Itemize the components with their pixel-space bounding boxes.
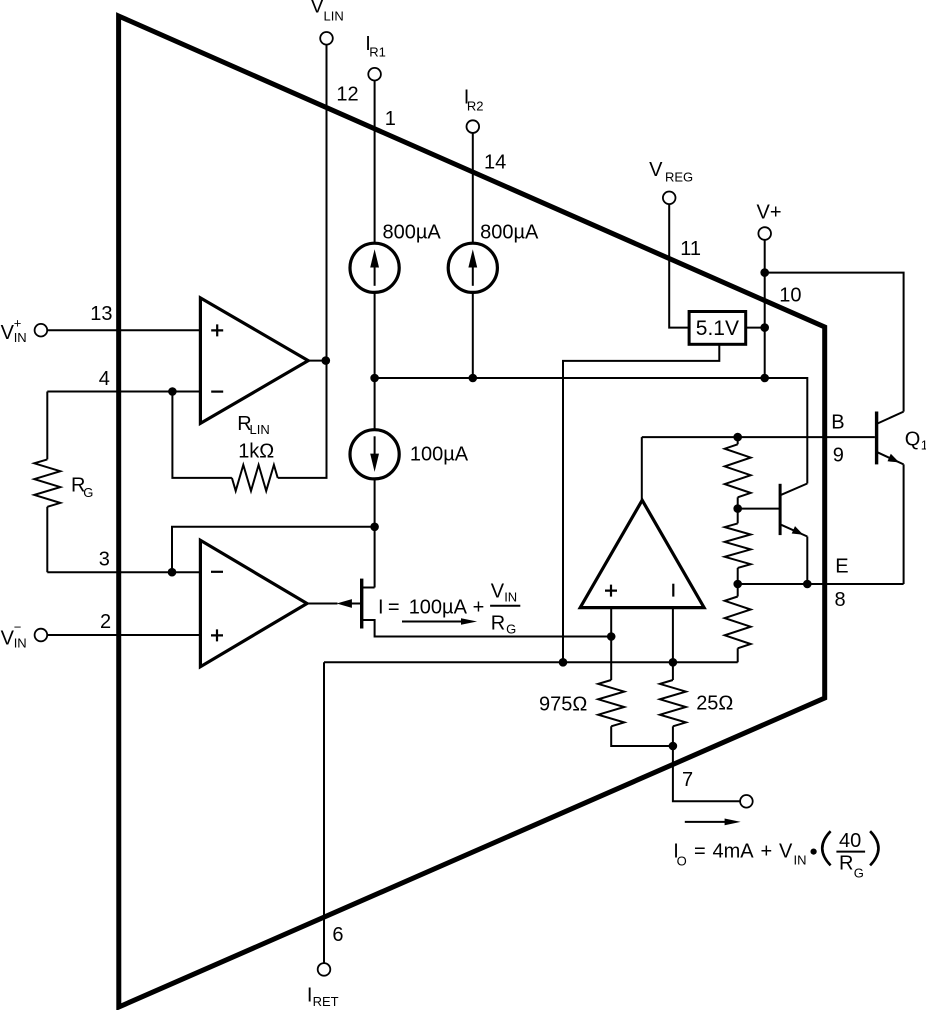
wire V+ vertical <box>764 240 766 378</box>
svg-text:LIN: LIN <box>324 9 344 24</box>
svg-text:R: R <box>491 613 505 635</box>
node pin 4 feedback <box>168 387 177 396</box>
wire Q1 base B <box>642 436 875 438</box>
wire chain link R3 to lower bus <box>737 648 739 662</box>
terminal I_R1 <box>368 68 381 81</box>
current source 800uA #1 <box>350 243 399 292</box>
transistor Q2 emitter arrow <box>792 526 804 535</box>
node chain top / base wire <box>733 433 742 442</box>
wire 975 ohm bottom to junction <box>611 726 673 746</box>
svg-text:R: R <box>839 853 853 875</box>
op-amp U2 minus mark <box>211 571 223 573</box>
svg-text:800µA: 800µA <box>480 221 539 243</box>
resistor R_LIN 1k <box>232 465 278 491</box>
node op-amp U1 output / V_LIN <box>322 356 331 365</box>
wire op-amp U1 output to V_LIN node <box>307 360 327 362</box>
op-amp U2 <box>200 540 307 666</box>
wire chain link R3 top <box>737 584 739 597</box>
current source 100uA <box>350 430 399 479</box>
svg-text:+: + <box>14 316 22 331</box>
op-amp U3 <box>580 500 704 607</box>
svg-text:100µA: 100µA <box>410 443 469 465</box>
svg-text:1: 1 <box>921 438 926 453</box>
svg-text:IN: IN <box>14 636 27 651</box>
svg-text:7: 7 <box>682 769 693 791</box>
node gate bus / drain line <box>370 523 379 532</box>
terminal V_LIN <box>320 32 333 45</box>
resistor 975 ohm <box>598 680 624 726</box>
wire 5.1V box bottom to lower bus <box>563 344 719 662</box>
wire Q2 base <box>738 508 780 510</box>
op-amp U1 plus mark <box>211 324 223 336</box>
wire Q2 emitter vertical <box>806 537 808 585</box>
node 5.1V return / lower bus <box>559 658 568 667</box>
node chain / Q2 base <box>733 504 742 513</box>
wire chain link base node to R1 <box>737 437 739 444</box>
resistor 25 ohm <box>660 680 686 726</box>
svg-text:V: V <box>1 322 15 344</box>
wire lower bus y=662 <box>324 661 738 663</box>
wire op-amp U2 output to FET gate <box>306 603 338 605</box>
wire gate arrow base to gate bar <box>352 603 361 605</box>
terminal I_R2 <box>467 120 480 133</box>
voltage regulator 5.1V box <box>689 312 746 345</box>
arrow output current direction <box>685 821 725 823</box>
svg-text:14: 14 <box>484 152 506 174</box>
svg-text:40: 40 <box>839 830 861 852</box>
svg-text:4mA: 4mA <box>713 841 755 863</box>
svg-text:O: O <box>677 854 687 869</box>
svg-text:V+: V+ <box>757 201 782 223</box>
svg-text:R1: R1 <box>369 45 386 60</box>
wire op-amp U3 - input stub <box>672 608 674 680</box>
svg-text:+: + <box>761 841 773 863</box>
svg-text:R2: R2 <box>467 99 484 114</box>
wire R_G bottom lead <box>46 507 48 572</box>
svg-text:V: V <box>1 628 15 650</box>
svg-text:1: 1 <box>385 108 396 130</box>
terminal V+ <box>758 227 771 240</box>
wire emitter bus E <box>738 583 904 585</box>
wire V+ to Q1 collector <box>765 273 904 412</box>
svg-text:=: = <box>388 596 400 618</box>
node I_R2 / supply bus <box>469 374 478 383</box>
terminal I_RET <box>318 963 331 976</box>
current source 800uA #2 <box>448 243 497 292</box>
node chain / E bus <box>733 580 742 589</box>
arrow FET current direction <box>402 621 462 623</box>
transistor Q2 collector <box>781 484 807 495</box>
svg-text:RET: RET <box>313 994 339 1009</box>
svg-text:IN: IN <box>14 330 27 345</box>
wire R_G top lead <box>46 392 48 460</box>
transistor Q1 emitter <box>878 452 904 464</box>
transistor Q1 bar <box>875 412 878 465</box>
terminal pin 7 output <box>740 795 753 808</box>
svg-text:G: G <box>854 866 864 881</box>
wire FET source to op-amp U3 + input <box>363 620 611 637</box>
wire I_RET vertical <box>323 662 325 963</box>
terminal V_REG <box>663 192 676 205</box>
wire output to pin 7 terminal <box>673 746 740 801</box>
svg-text:11: 11 <box>680 238 701 260</box>
wire I_R1 vertical line <box>374 81 376 588</box>
op-amp U1 <box>200 298 308 424</box>
svg-text:25Ω: 25Ω <box>696 693 733 715</box>
resistor chain R2 (Q2 base to E bus) <box>725 523 751 568</box>
node resistor bottoms junction <box>669 742 678 751</box>
node pin 3 / gate bus <box>168 568 177 577</box>
svg-text:G: G <box>83 485 93 500</box>
svg-text:G: G <box>506 622 516 637</box>
svg-text:800µA: 800µA <box>383 221 442 243</box>
terminal V_IN+ <box>35 324 48 337</box>
wire chain link R2 to E bus <box>737 568 739 584</box>
svg-text:V: V <box>779 841 793 863</box>
node V+ / supply bus <box>760 374 769 383</box>
wire op-amp U3 output to base wire <box>641 437 643 500</box>
svg-text:12: 12 <box>336 84 358 106</box>
wire pin 3 input <box>47 571 201 573</box>
svg-text:3: 3 <box>99 549 110 571</box>
svg-text:8: 8 <box>835 589 846 611</box>
resistor chain R1 (Q1 base to Q2 base) <box>725 444 751 497</box>
node Q2 emitter / E bus <box>803 580 812 589</box>
node U3 + input / source wire <box>607 632 616 641</box>
wire 25 ohm bottom lead <box>672 726 674 746</box>
transistor Q2 emitter <box>781 525 807 537</box>
svg-text:13: 13 <box>90 303 112 325</box>
svg-text:B: B <box>831 411 844 433</box>
wire Q1 emitter vertical <box>903 464 905 584</box>
wire pin 4 input <box>47 391 201 393</box>
svg-text:−: − <box>14 620 22 635</box>
node U3 - input / lower bus <box>669 658 678 667</box>
wire R_LIN left lead and feedback to pin 4 node <box>172 392 232 478</box>
wire supply bus y=378 to Q2 collector <box>375 378 808 484</box>
IC boundary outline <box>119 16 825 1007</box>
wire V_LIN vertical to R_LIN right end <box>278 45 327 478</box>
wire chain link R1 to R2 <box>737 497 739 523</box>
FET gate arrow <box>337 599 352 608</box>
svg-text:9: 9 <box>833 445 844 467</box>
svg-text:975Ω: 975Ω <box>539 693 587 715</box>
svg-text:2: 2 <box>100 611 111 633</box>
op-amp U2 plus mark <box>211 629 223 641</box>
node V+ / collector feed <box>760 268 769 277</box>
svg-text:1kΩ: 1kΩ <box>238 440 274 462</box>
wire V_REG to 5.1V box <box>669 204 689 327</box>
op-amp U1 minus mark <box>211 391 223 393</box>
svg-text:IN: IN <box>504 590 517 605</box>
svg-text:5.1V: 5.1V <box>696 317 739 340</box>
svg-text:LIN: LIN <box>250 422 270 437</box>
wire op-amp U3 + input stub <box>610 608 612 680</box>
transistor Q1 collector <box>878 412 904 424</box>
wire pin 13 input <box>48 329 201 331</box>
svg-text:V: V <box>491 581 505 603</box>
svg-text:Q: Q <box>905 429 921 451</box>
svg-text:+: + <box>473 596 485 618</box>
op-amp U3 minus mark (vertical bar) <box>672 584 674 597</box>
wire gate bus from pin 3 node to FET drain line <box>172 527 375 572</box>
svg-text:10: 10 <box>779 285 801 307</box>
op-amp U3 plus mark <box>605 585 617 597</box>
wire FET drain stub <box>363 587 375 589</box>
resistor R_G <box>34 459 60 506</box>
svg-text:V: V <box>649 159 663 181</box>
svg-text:REG: REG <box>665 169 693 184</box>
terminal V_IN- <box>35 629 48 642</box>
wire 5.1V box right lead <box>746 327 765 329</box>
wire pin 2 input <box>48 634 201 636</box>
svg-text:6: 6 <box>332 924 343 946</box>
svg-text:V: V <box>311 0 325 18</box>
svg-text:=: = <box>694 841 706 863</box>
svg-text:E: E <box>835 556 848 578</box>
node V+ / 5.1V box <box>760 323 769 332</box>
transistor Q1 emitter arrow <box>888 454 900 463</box>
FET gate bar <box>360 579 363 629</box>
wire I_R2 vertical line <box>472 133 474 378</box>
resistor chain R3 (E bus to lower bus) <box>725 597 751 649</box>
transistor Q2 bar <box>779 484 782 535</box>
svg-text:I: I <box>378 596 384 618</box>
svg-text:IN: IN <box>794 853 807 868</box>
svg-text:4: 4 <box>99 368 110 390</box>
svg-text:100µA: 100µA <box>409 596 468 618</box>
node I_R1 / supply bus <box>370 374 379 383</box>
